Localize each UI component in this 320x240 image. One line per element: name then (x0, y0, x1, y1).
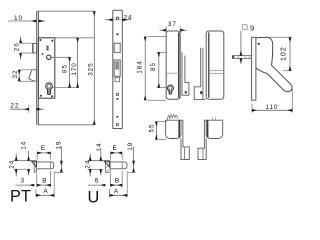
svg-text:32: 32 (12, 70, 19, 79)
latch bolt face line (33, 43, 35, 53)
U dimension E (111, 145, 123, 160)
left cup shadow edge (178, 120, 180, 137)
bracket B hole (200, 91, 202, 94)
svg-text:24: 24 (124, 14, 133, 21)
dimension 10 (8, 15, 45, 22)
PT bolt end cap line (50, 162, 52, 169)
PT wall hatched (33, 161, 35, 173)
bracket B inner edge (202, 48, 204, 100)
svg-text:U: U (88, 189, 100, 207)
follower slot dots (47, 46, 49, 48)
svg-text:85: 85 (150, 62, 157, 71)
case screw top-left (39, 39, 41, 41)
dimension 37 (160, 21, 187, 33)
PT dimension 24 (8, 154, 16, 177)
svg-text:325: 325 (87, 62, 94, 75)
right cup strap and hook (198, 120, 206, 159)
left cup body (166, 120, 181, 138)
lock case outline (38, 38, 54, 98)
handle pivot screw (258, 43, 260, 45)
follower hub (47, 55, 51, 59)
svg-text:22: 22 (10, 102, 19, 109)
U wall hatched (104, 161, 106, 173)
U bolt bar (110, 162, 127, 169)
top extension line (37, 10, 95, 12)
svg-text:184: 184 (136, 60, 143, 73)
bolt window (114, 60, 120, 76)
handle lever (256, 37, 292, 92)
faceplate back line (37, 11, 39, 125)
dimension 102 (269, 37, 292, 70)
svg-text:3: 3 (21, 177, 25, 184)
escutcheon B outline (206, 31, 224, 99)
svg-text:B: B (115, 178, 120, 185)
cylinder axis extension line (53, 87, 79, 89)
U dimension 19 (127, 142, 136, 173)
PT dimension 14 (21, 141, 29, 176)
U dimension 14 (96, 142, 103, 175)
PT dimension A (36, 171, 54, 197)
spindle hatch (237, 56, 239, 58)
escutcheon A mounting bracket (182, 52, 189, 95)
escutcheon B left edge thick (208, 32, 210, 97)
escutcheon A outline (166, 31, 180, 99)
case screw bottom-right (51, 95, 53, 97)
euro cylinder hole (46, 83, 53, 95)
right hook inner line (202, 148, 204, 159)
svg-text:26: 26 (14, 42, 21, 51)
dimension 110 (252, 87, 292, 113)
PT dimension B (37, 171, 51, 187)
dimension 85 escutcheon (150, 52, 167, 87)
escutcheon A keyhole inner profile (169, 86, 172, 92)
svg-text:110: 110 (266, 104, 279, 111)
latch window (114, 43, 120, 52)
escutcheon B mounting bracket (194, 48, 205, 100)
bottom L extension line (38, 98, 94, 125)
svg-text:19: 19 (127, 142, 134, 151)
right cup clip ticks (211, 118, 213, 120)
follower axis extension line (51, 56, 70, 58)
PT dimension 19 (55, 140, 63, 172)
handle back plate (252, 37, 256, 100)
U dimension B (110, 171, 122, 187)
svg-text:170: 170 (71, 62, 78, 75)
svg-text:PT: PT (10, 188, 31, 206)
svg-text:24: 24 (8, 160, 15, 169)
right cup shadow edge (207, 120, 209, 137)
dimension 325 (87, 11, 94, 125)
escutcheon A cylinder keyhole (167, 85, 173, 94)
strike screw hole top (116, 17, 119, 20)
svg-text:A: A (43, 188, 48, 195)
faceplate front line (36, 11, 38, 125)
svg-text:14: 14 (96, 142, 103, 151)
bracket A hole (185, 91, 187, 93)
PT latch bevel triangle (31, 161, 36, 167)
svg-text:37: 37 (168, 21, 177, 28)
dimension 85 drawing1 (62, 57, 70, 87)
svg-text:55: 55 (149, 124, 156, 133)
U dimension 24 (85, 154, 92, 177)
right cup body (206, 120, 223, 138)
U bolt end cap line (121, 162, 123, 169)
escutcheon B seam upper (209, 70, 224, 72)
svg-text:19: 19 (55, 140, 62, 149)
strike screw hole 2 (116, 33, 118, 35)
strike hole lower filled (116, 116, 118, 118)
case screw top-right (51, 40, 53, 42)
deadbolt wedge (29, 70, 37, 82)
case top extension line (55, 37, 94, 39)
dimension 55 (149, 121, 168, 139)
slot outline (46, 46, 49, 51)
euro cylinder inner profile (47, 85, 50, 94)
svg-text:6: 6 (95, 178, 99, 185)
spindle end cap (232, 56, 234, 59)
small window (115, 77, 120, 81)
PT dimension E (37, 145, 51, 160)
U bottom reference line (88, 168, 103, 170)
U dimension 6 (88, 178, 105, 186)
spindle 9 leader line with arrows (240, 31, 242, 56)
svg-text:B: B (42, 178, 47, 185)
case mid screw (42, 53, 44, 55)
dimension 184 (136, 37, 166, 101)
strike small hole open (116, 93, 118, 95)
svg-text:10: 10 (14, 15, 23, 22)
PT top surface line (14, 160, 37, 162)
dimension 32 (12, 70, 36, 82)
PT dimension 3 (16, 177, 35, 185)
left cup clip (168, 115, 178, 120)
PT bolt bar (37, 162, 54, 169)
svg-text:A: A (114, 188, 119, 195)
left cup strap and hook (181, 120, 189, 159)
dimension 26 (14, 37, 34, 60)
PT bottom reference line (14, 168, 31, 170)
dimension 22 (10, 102, 44, 113)
latch bolt (33, 43, 37, 53)
U top surface line (88, 160, 111, 162)
left hook inner line (184, 147, 186, 160)
svg-text:9: 9 (250, 23, 254, 32)
strike bottom screw hole (116, 124, 118, 126)
strike small hole filled (116, 98, 118, 100)
svg-text:24: 24 (85, 160, 92, 169)
bolt in window (115, 61, 119, 69)
svg-text:E: E (113, 145, 118, 152)
escutcheon B seam lower (209, 72, 224, 74)
svg-text:85: 85 (62, 64, 69, 73)
svg-text:E: E (41, 145, 46, 152)
dimension 24 drawing2 (105, 14, 133, 21)
svg-text:14: 14 (21, 141, 28, 150)
dimension 170 (71, 38, 78, 88)
escutcheon A right edge thick (178, 32, 180, 97)
svg-text:102: 102 (279, 46, 287, 61)
case screw bottom-left (40, 95, 42, 97)
U latch bevel triangle (104, 161, 109, 167)
spindle bar (232, 56, 251, 59)
square spindle symbol (242, 25, 247, 30)
escutcheon A seam (166, 72, 178, 74)
U dimension A (110, 171, 128, 197)
strike plate outline (113, 10, 123, 128)
